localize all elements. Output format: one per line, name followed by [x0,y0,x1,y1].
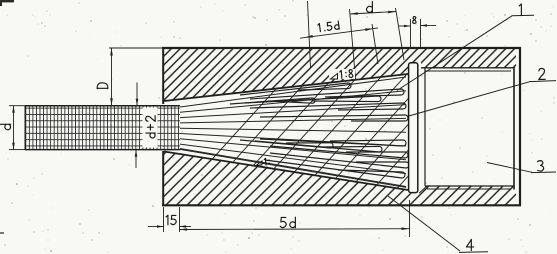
socket body bottom hatched section [163,152,516,206]
dim d+2 upper arrow [136,83,138,106]
cavity right wall [513,67,515,190]
dim D text [97,83,108,89]
dim d top ext lines [350,9,356,79]
cable grid body [25,106,180,150]
cable top edge [25,105,180,107]
dim d top text [367,2,373,13]
paper speckle (decorative) [179,37,181,39]
block outline left edge upper [162,47,164,104]
dim delta ext lines [410,19,412,48]
cavity bottom edge double line [425,185,515,187]
scan corner artifact [0,0,14,2]
dim 15 ext lines [163,207,165,232]
dim d (cable) text [0,124,11,130]
dim 5d text [280,217,295,228]
socket body top hatched section [163,48,516,101]
dim d+2 lower arrow [135,150,137,168]
cavity top edge double line [421,67,515,69]
slope mark 1:8 backdrop [329,69,355,79]
dim 5d line [180,228,410,231]
leader label 4 [388,196,460,251]
cone bottom edge [164,152,408,191]
block outline left edge lower [162,151,164,206]
block outline bottom edge [162,204,521,206]
block outline right edge [519,47,521,206]
dim d top line [350,12,396,15]
label d+2 on cable [143,108,158,148]
slope mark 1:8 [331,74,338,80]
wire hooked ends (hairpins) [180,77,406,107]
dim 1.5d ext lines [308,1,311,68]
dim delta text [413,17,416,24]
washer plate (item 2) [409,63,418,193]
dim delta shafts/arrows [399,25,411,27]
leader label 1 [397,16,512,91]
dim 1.5d line [300,28,378,38]
cavity bottom chamfer [419,186,427,193]
dim d (cable) line [13,106,15,150]
dim 15 arrows [148,226,164,228]
dim 15 text [166,215,176,225]
cavity left wall [424,68,426,186]
cone top edge [164,74,408,101]
scan edge artifact bottom-left [0,232,4,234]
leader label 3 [487,163,532,173]
cable bottom edge [25,149,180,151]
cable left end [24,106,26,150]
dim D line [111,48,113,106]
slope mark 1:6 (bottom, small) [257,161,263,165]
dim 5d ext line right [409,200,411,237]
dim D ext line [109,47,163,49]
dim 1.5d text [318,21,340,32]
dim d (cable) ext lines [9,105,25,107]
leader label 2 [407,81,531,116]
block outline top edge [162,47,521,49]
